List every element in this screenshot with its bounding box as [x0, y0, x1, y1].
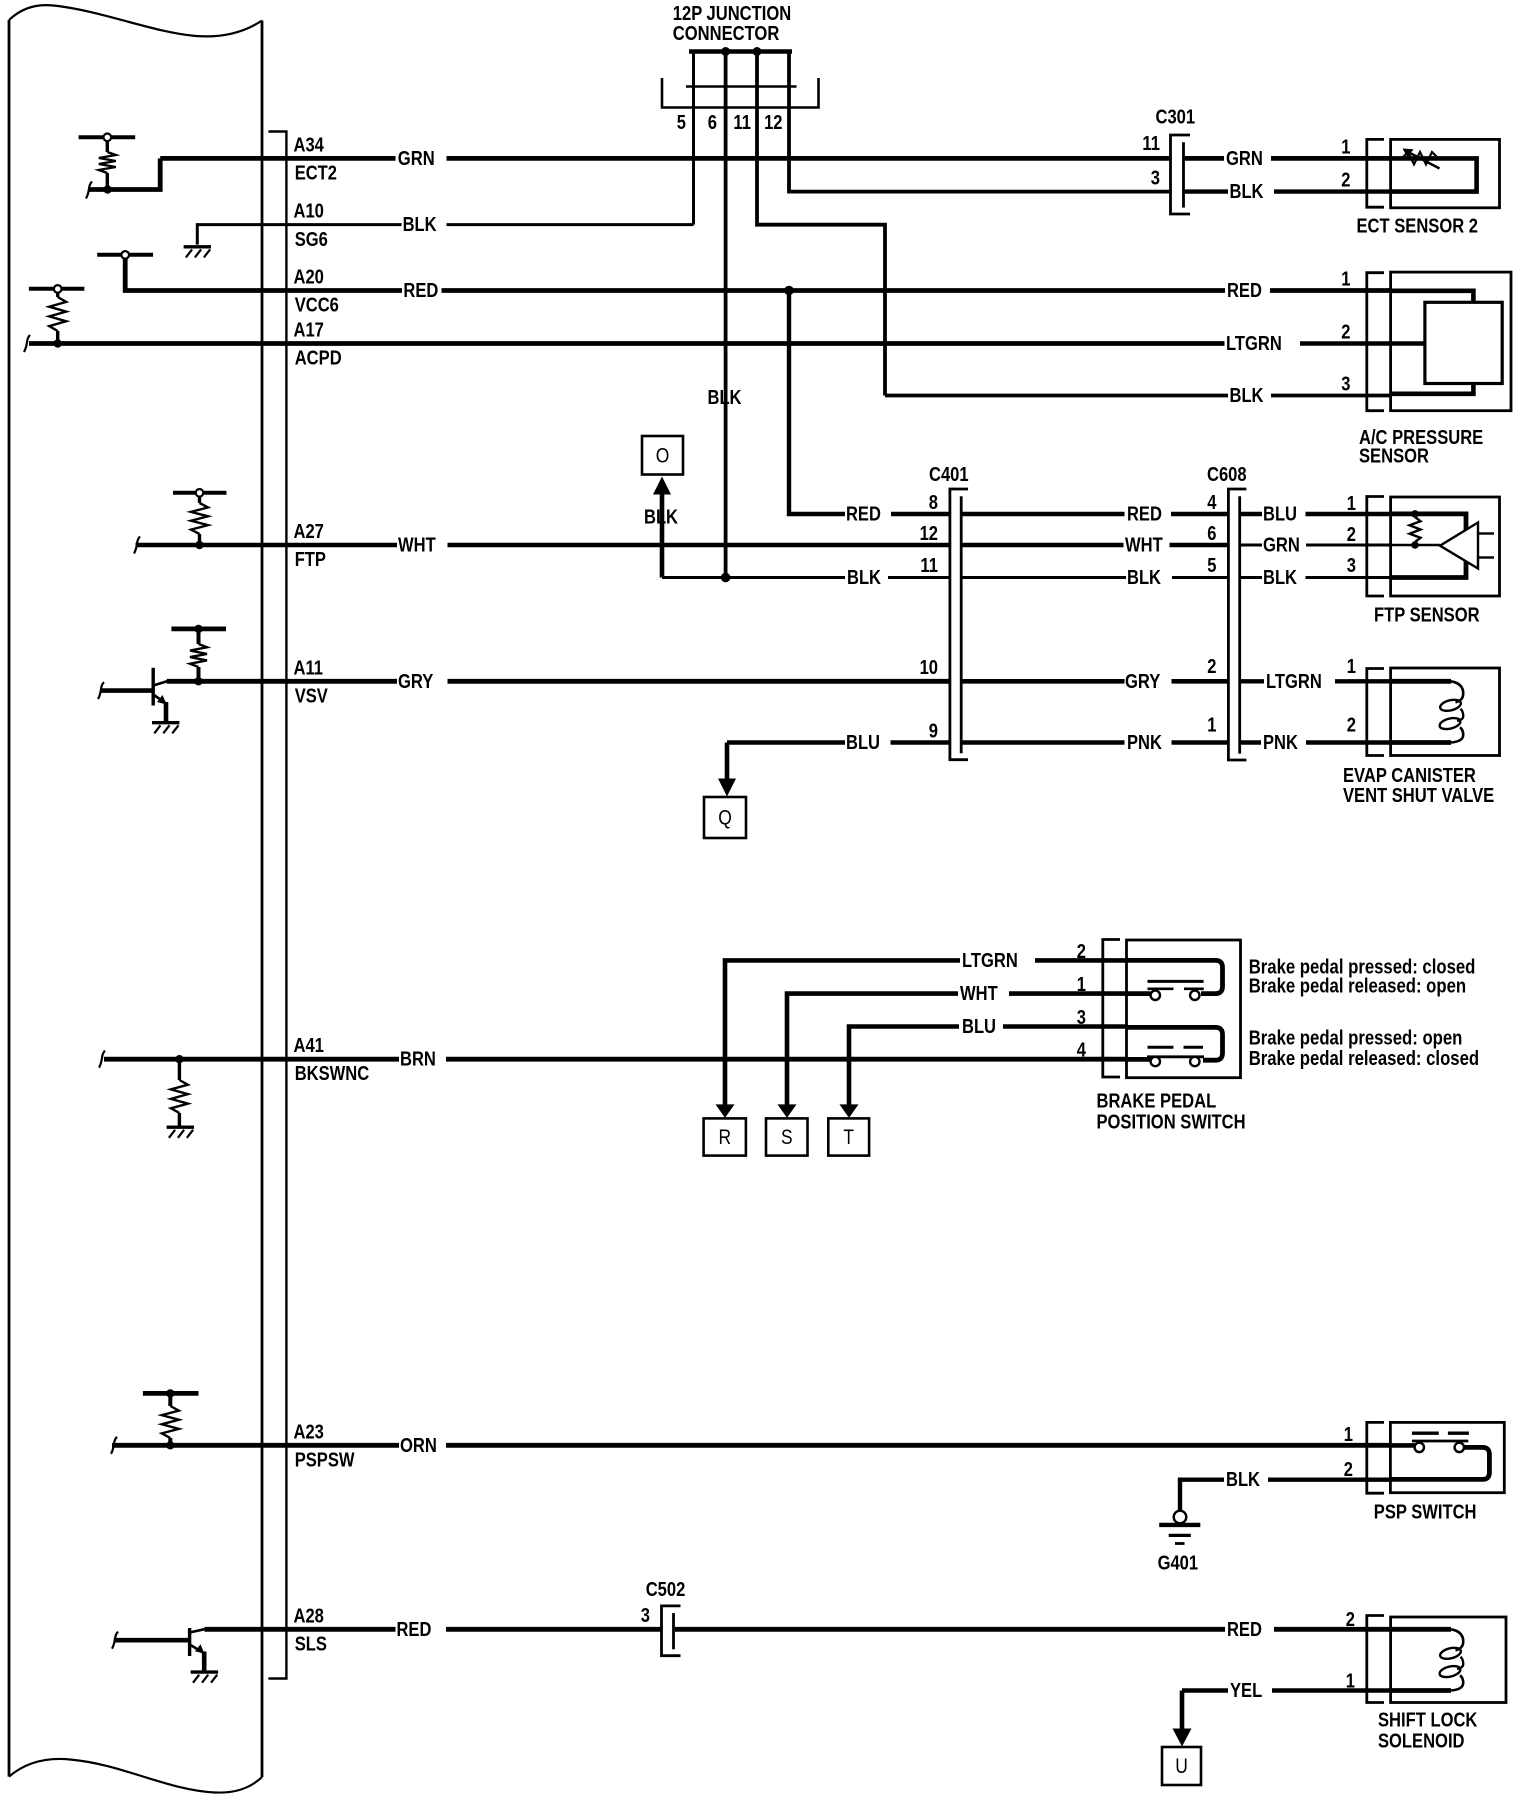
brake switch top bar	[1148, 980, 1204, 983]
pin number C608-4	[1207, 492, 1217, 514]
brake switch bottom bar	[1147, 1055, 1204, 1058]
wire RED drop to C401	[789, 291, 950, 515]
svg-text:3: 3	[1077, 1007, 1086, 1029]
junction dot A34	[103, 185, 111, 193]
no-connect slash A41	[99, 1051, 105, 1068]
svg-text:LTGRN: LTGRN	[1226, 333, 1282, 355]
label BLU right	[1263, 504, 1297, 526]
svg-text:2: 2	[1347, 524, 1356, 546]
svg-text:11: 11	[1142, 133, 1160, 155]
svg-text:POSITION SWITCH: POSITION SWITCH	[1097, 1111, 1246, 1133]
pin number BRK-1	[1077, 974, 1086, 996]
pin number C301-3	[1151, 168, 1160, 190]
svg-text:BLK: BLK	[1226, 1469, 1260, 1491]
svg-text:Brake pedal pressed: open: Brake pedal pressed: open	[1249, 1028, 1463, 1050]
svg-text:PNK: PNK	[1263, 732, 1298, 754]
label GRN right	[1226, 148, 1263, 170]
pin number C608-2	[1207, 656, 1216, 678]
wire BLK C401-C608	[961, 576, 1228, 579]
pin number EVAP-2	[1347, 715, 1356, 737]
label 12P JUNCTION CONNECTOR	[673, 3, 791, 45]
pin label SLS	[295, 1633, 327, 1655]
FTP sensor amplifier	[1440, 523, 1494, 569]
brake switch bottom contact loop	[1127, 1027, 1223, 1060]
svg-text:6: 6	[1207, 523, 1216, 545]
arrow to node U	[1173, 1691, 1192, 1747]
shift solenoid coil wires	[1391, 1629, 1451, 1690]
svg-text:11: 11	[920, 555, 938, 577]
svg-text:SG6: SG6	[295, 229, 328, 251]
svg-text:2: 2	[1077, 941, 1086, 963]
svg-text:A27: A27	[294, 521, 324, 543]
svg-text:GRN: GRN	[398, 148, 435, 170]
pin number ECT-1	[1341, 137, 1350, 159]
wire YEL to solenoid	[1182, 1688, 1391, 1693]
wire junction pin 12 drop	[789, 53, 1171, 192]
label BLK right	[1230, 181, 1264, 203]
pin label VCC6	[295, 295, 339, 317]
svg-text:BLK: BLK	[847, 567, 881, 589]
svg-text:FTP: FTP	[295, 549, 326, 571]
pin number AC-1	[1341, 269, 1350, 291]
pin number 6	[708, 112, 717, 134]
svg-text:WHT: WHT	[398, 535, 436, 557]
svg-text:VENT SHUT VALVE: VENT SHUT VALVE	[1343, 785, 1494, 807]
connector bracket brake switch	[1103, 940, 1120, 1078]
label BLK ftp	[1263, 567, 1297, 589]
pin number BRK-3	[1077, 1007, 1086, 1029]
label LTGRN AC	[1226, 333, 1282, 355]
svg-text:A10: A10	[294, 201, 324, 223]
node R box	[704, 1118, 746, 1155]
svg-text:BLK: BLK	[708, 387, 742, 409]
svg-text:5: 5	[1207, 555, 1216, 577]
transistor Q-A11	[100, 668, 167, 721]
svg-text:4: 4	[1207, 492, 1217, 514]
svg-text:GRN: GRN	[1226, 148, 1263, 170]
wire A20 RED	[262, 288, 1391, 293]
svg-text:1: 1	[1346, 1671, 1355, 1693]
svg-text:C401: C401	[929, 464, 969, 486]
pin number C401-9	[929, 721, 938, 743]
svg-text:RED: RED	[403, 280, 438, 302]
junction dot A17	[54, 339, 62, 347]
label BLK pin6 drop	[708, 387, 742, 409]
svg-text:BLK: BLK	[1230, 181, 1264, 203]
label BRAKE PEDAL POSITION SWITCH	[1097, 1091, 1246, 1134]
junction dot A27	[195, 541, 203, 549]
ECU control module outline (torn box)	[9, 5, 262, 1792]
connector C301	[1171, 135, 1191, 214]
svg-text:C502: C502	[646, 1579, 686, 1601]
junction dot pin11 top	[753, 47, 762, 56]
pin label ACPD	[295, 348, 342, 370]
wire BLK AC pin3	[885, 394, 1391, 398]
wire GRN C608-FTP	[1240, 544, 1391, 547]
no-connect slash A27	[134, 537, 140, 554]
ECT sensor 2 inner wire	[1391, 158, 1477, 191]
resistor A17	[49, 293, 66, 341]
note brake bottom switch	[1249, 1028, 1479, 1070]
wire BLU to Q	[727, 740, 950, 744]
connector bracket shift solenoid	[1367, 1616, 1384, 1703]
resistor A34 pull-up	[99, 141, 116, 186]
svg-text:BLU: BLU	[846, 732, 880, 754]
resistor A41	[171, 1059, 188, 1126]
connector bracket PSP switch	[1367, 1422, 1384, 1493]
svg-text:2: 2	[1341, 322, 1350, 344]
svg-text:O: O	[656, 444, 670, 467]
shift solenoid coil	[1439, 1629, 1464, 1690]
wire junction pin 11 drop	[757, 53, 885, 396]
label WHT mid	[1125, 535, 1163, 557]
pin number AC-2	[1341, 322, 1350, 344]
svg-text:G401: G401	[1158, 1553, 1199, 1575]
wire A27 WHT	[136, 543, 950, 548]
pin number PSP-1	[1344, 1424, 1353, 1446]
svg-text:RED: RED	[846, 504, 881, 526]
no-connect slash A23	[111, 1437, 117, 1454]
svg-text:RED: RED	[1227, 280, 1262, 302]
svg-text:SHIFT LOCK: SHIFT LOCK	[1378, 1710, 1478, 1732]
PSP switch bar	[1412, 1440, 1468, 1443]
FTP sensor box	[1391, 497, 1500, 596]
svg-text:EVAP CANISTER: EVAP CANISTER	[1343, 765, 1476, 787]
svg-text:A20: A20	[294, 267, 324, 289]
svg-text:3: 3	[641, 1605, 650, 1627]
no-connect slash A28 base	[112, 1632, 118, 1649]
wire A34 internal	[89, 158, 160, 189]
svg-text:A17: A17	[294, 320, 324, 342]
wire A23 ORN	[112, 1443, 1390, 1448]
pin number 11	[733, 112, 751, 134]
svg-text:BLK: BLK	[644, 507, 678, 529]
wire RED C401-C608	[961, 512, 1228, 516]
label BLK A10	[403, 214, 437, 236]
label RED mid	[1127, 504, 1162, 526]
arrow to node T	[840, 1104, 859, 1118]
arrow to node O	[653, 477, 671, 578]
label GRN mid	[1263, 535, 1300, 557]
svg-text:A23: A23	[294, 1421, 324, 1443]
PSP switch box	[1390, 1422, 1504, 1492]
pin label A23	[294, 1421, 324, 1443]
brake switch top contacts	[1151, 991, 1200, 1000]
node U box	[1162, 1747, 1201, 1785]
svg-text:FTP SENSOR: FTP SENSOR	[1374, 605, 1480, 627]
svg-text:1: 1	[1344, 1424, 1353, 1446]
label BLK mid	[1127, 567, 1161, 589]
svg-text:2: 2	[1347, 715, 1356, 737]
no-connect slash A34	[86, 182, 92, 199]
label RED A20	[403, 280, 438, 302]
svg-text:Brake pedal released: open: Brake pedal released: open	[1249, 976, 1466, 998]
svg-text:3: 3	[1341, 374, 1350, 396]
wire BLK PSP pin2	[1180, 1480, 1390, 1511]
pin number ECT-2	[1341, 170, 1350, 192]
label G401	[1158, 1553, 1199, 1575]
label GRY mid	[1125, 671, 1161, 693]
label ECT SENSOR 2	[1357, 216, 1479, 238]
resistor A23	[162, 1393, 179, 1443]
svg-text:12: 12	[764, 112, 782, 134]
wire PNK C401-C608	[961, 740, 1228, 744]
transistor Q-A28	[114, 1628, 205, 1670]
pin number BRK-4	[1077, 1040, 1087, 1062]
svg-text:R: R	[718, 1126, 731, 1149]
svg-text:PSPSW: PSPSW	[295, 1449, 355, 1471]
wire BLU C608-FTP	[1240, 512, 1391, 516]
pin label A17	[294, 320, 324, 342]
note brake top switch	[1249, 956, 1476, 997]
pin number AC-3	[1341, 374, 1350, 396]
pin number FTP-3	[1347, 555, 1356, 577]
svg-text:1: 1	[1341, 269, 1350, 291]
svg-text:BLK: BLK	[403, 214, 437, 236]
connector C502	[662, 1606, 681, 1656]
wire GRN C301 to ECT	[1185, 156, 1391, 161]
svg-text:10: 10	[920, 657, 938, 679]
wire A28 RED	[205, 1627, 662, 1632]
label BLK node O	[644, 507, 678, 529]
wire GRY C401-C608	[961, 679, 1228, 684]
svg-text:BRN: BRN	[400, 1049, 436, 1071]
brake switch bottom contacts	[1151, 1057, 1200, 1066]
ECT sensor 2 box	[1391, 139, 1500, 207]
svg-text:ACPD: ACPD	[295, 348, 342, 370]
label FTP SENSOR	[1374, 605, 1480, 627]
pin number C401-10	[920, 657, 938, 679]
svg-text:VCC6: VCC6	[295, 295, 339, 317]
ground A11 emitter	[152, 723, 179, 734]
svg-text:U: U	[1175, 1755, 1188, 1778]
pin label PSPSW	[295, 1449, 355, 1471]
resistor A11	[190, 629, 207, 679]
pin number C401-8	[929, 492, 938, 514]
svg-text:SOLENOID: SOLENOID	[1378, 1731, 1465, 1753]
wire A17 LTGRN	[29, 341, 1425, 346]
no-connect slash A17	[24, 335, 30, 352]
svg-text:SLS: SLS	[295, 1633, 327, 1655]
wire junction pin 5 drop	[692, 53, 695, 225]
svg-text:11: 11	[733, 112, 751, 134]
svg-text:T: T	[843, 1126, 854, 1149]
label EVAP CANISTER VENT SHUT VALVE	[1343, 765, 1494, 807]
svg-text:6: 6	[708, 112, 717, 134]
label PSP SWITCH	[1374, 1501, 1477, 1523]
node O box	[642, 436, 683, 475]
label BLK psp	[1226, 1469, 1260, 1491]
label A/C PRESSURE SENSOR	[1359, 427, 1483, 468]
wire RED C502 to solenoid	[675, 1627, 1391, 1632]
FTP sensor pin2 wire	[1391, 544, 1440, 547]
svg-text:GRY: GRY	[398, 671, 434, 693]
svg-text:A41: A41	[294, 1035, 324, 1057]
svg-text:BLK: BLK	[1230, 385, 1264, 407]
label GRY A11	[398, 671, 434, 693]
ECU connector strip	[268, 132, 286, 1679]
resistor A27	[191, 497, 208, 542]
pin label A34	[294, 135, 325, 157]
pin label SG6	[295, 229, 328, 251]
label PNK evap	[1263, 732, 1298, 754]
wire junction pin 6 drop	[724, 53, 728, 578]
pin number PSP-2	[1344, 1459, 1353, 1481]
ground A28 emitter	[191, 1672, 218, 1683]
connector bracket EVAP valve	[1367, 669, 1384, 756]
pin number C608-5	[1207, 555, 1216, 577]
pin label A41	[294, 1035, 324, 1057]
label BLK O wire	[847, 567, 881, 589]
supply rail A11	[171, 625, 226, 633]
voltage source node A20	[97, 251, 153, 259]
junction dot A11	[194, 677, 202, 685]
label C301	[1156, 107, 1196, 129]
connector C401	[950, 489, 968, 760]
svg-text:BKSWNC: BKSWNC	[295, 1063, 370, 1085]
label ORN A23	[400, 1435, 437, 1457]
voltage source node A17	[29, 285, 85, 293]
svg-text:1: 1	[1077, 974, 1086, 996]
node Q box	[704, 797, 746, 838]
PSP switch dashes	[1412, 1431, 1469, 1434]
svg-text:12: 12	[920, 523, 938, 545]
junction dot BLK pin6	[721, 573, 731, 583]
svg-text:LTGRN: LTGRN	[962, 950, 1018, 972]
EVAP valve coil wires	[1391, 681, 1451, 742]
label BLK AC	[1230, 385, 1264, 407]
supply rail A23	[143, 1389, 199, 1397]
svg-text:ORN: ORN	[400, 1435, 437, 1457]
voltage source node A27	[173, 489, 227, 497]
pin number 5	[677, 112, 686, 134]
svg-text:PSP SWITCH: PSP SWITCH	[1374, 1501, 1477, 1523]
FTP sensor inner wire	[1391, 514, 1466, 578]
label RED A28	[397, 1619, 432, 1641]
svg-text:2: 2	[1341, 170, 1350, 192]
svg-text:8: 8	[929, 492, 938, 514]
wire A10 internal	[197, 225, 262, 245]
pin number C401-12	[920, 523, 938, 545]
svg-text:SENSOR: SENSOR	[1359, 446, 1429, 468]
svg-text:RED: RED	[1227, 1619, 1262, 1641]
label PNK mid	[1127, 732, 1162, 754]
pin number FTP-1	[1347, 493, 1356, 515]
svg-text:BLU: BLU	[962, 1016, 996, 1038]
svg-text:VSV: VSV	[295, 685, 329, 707]
junction dot A23	[166, 1441, 174, 1449]
svg-text:12P JUNCTION: 12P JUNCTION	[673, 3, 791, 25]
svg-text:3: 3	[1151, 168, 1160, 190]
wire A10 BLK	[262, 223, 694, 226]
EVAP valve box	[1391, 668, 1500, 756]
svg-text:YEL: YEL	[1230, 1680, 1262, 1702]
arrow to node R	[716, 1104, 735, 1118]
svg-text:BLU: BLU	[1263, 504, 1297, 526]
EVAP valve coil	[1439, 681, 1464, 742]
arrow to node S	[778, 1104, 797, 1118]
brake switch top contact loop	[1127, 960, 1223, 993]
label BLU brake	[962, 1016, 996, 1038]
label YEL	[1230, 1680, 1262, 1702]
connector bracket A/C sensor	[1367, 273, 1384, 411]
svg-text:1: 1	[1207, 715, 1216, 737]
node T box	[828, 1118, 869, 1155]
shift lock solenoid box	[1391, 1617, 1506, 1703]
svg-text:A34: A34	[294, 135, 325, 157]
connector bracket ECT sensor	[1367, 139, 1384, 207]
svg-text:9: 9	[929, 721, 938, 743]
junction connector shell	[662, 78, 819, 108]
PSP switch contact loop	[1390, 1447, 1489, 1479]
label RED right AC	[1227, 280, 1262, 302]
svg-text:BLK: BLK	[1263, 567, 1297, 589]
pin label A11	[294, 657, 324, 679]
wire A34 GRN	[160, 156, 1170, 161]
svg-text:Q: Q	[718, 807, 732, 830]
arrow to node Q	[718, 743, 736, 797]
pin label FTP	[295, 549, 326, 571]
FTP sensor resistor	[1410, 510, 1421, 549]
pin label A28	[294, 1605, 324, 1627]
svg-text:A28: A28	[294, 1605, 324, 1627]
label GRN	[398, 148, 435, 170]
pin number 12	[764, 112, 782, 134]
svg-text:BLK: BLK	[1127, 567, 1161, 589]
node S box	[766, 1118, 808, 1155]
pin number C608-6	[1207, 523, 1216, 545]
label C608	[1207, 464, 1247, 486]
svg-text:WHT: WHT	[1125, 535, 1163, 557]
brake switch box	[1127, 940, 1241, 1078]
svg-text:ECT2: ECT2	[295, 163, 337, 185]
pin label A20	[294, 267, 324, 289]
PSP switch pin1 wire	[1390, 1443, 1415, 1448]
label BLU q	[846, 732, 880, 754]
svg-text:RED: RED	[1127, 504, 1162, 526]
pin label ECT2	[295, 163, 337, 185]
svg-text:2: 2	[1344, 1459, 1353, 1481]
wire LTGRN brake pin2	[725, 960, 1127, 1108]
svg-text:2: 2	[1207, 656, 1216, 678]
wire BLK C301 to ECT pin2	[1185, 189, 1391, 193]
wire BLK O to C401	[662, 576, 950, 579]
pin number C401-11	[920, 555, 938, 577]
pin label A10	[294, 201, 324, 223]
wire PNK C608-EVAP	[1240, 740, 1391, 744]
label SHIFT LOCK SOLENOID	[1378, 1710, 1478, 1753]
svg-text:RED: RED	[397, 1619, 432, 1641]
svg-text:1: 1	[1347, 656, 1356, 678]
svg-text:ECT SENSOR 2: ECT SENSOR 2	[1357, 216, 1479, 238]
label LTGRN brake	[962, 950, 1018, 972]
svg-text:5: 5	[677, 112, 686, 134]
pin label BKSWNC	[295, 1063, 370, 1085]
wire LTGRN C608-EVAP	[1240, 679, 1391, 683]
svg-text:WHT: WHT	[960, 983, 998, 1005]
connector bracket FTP sensor	[1367, 497, 1384, 597]
svg-text:S: S	[781, 1126, 793, 1149]
connector C608	[1228, 489, 1246, 760]
junction connector comb	[686, 52, 797, 87]
svg-text:BRAKE PEDAL: BRAKE PEDAL	[1097, 1091, 1217, 1113]
wire BLK C608-FTP	[1240, 576, 1391, 579]
svg-text:PNK: PNK	[1127, 732, 1162, 754]
wire A20 internal	[125, 259, 262, 291]
A/C sensor element	[1425, 302, 1502, 383]
label RED shift	[1227, 1619, 1262, 1641]
wire A41 BRN	[104, 1057, 1127, 1062]
